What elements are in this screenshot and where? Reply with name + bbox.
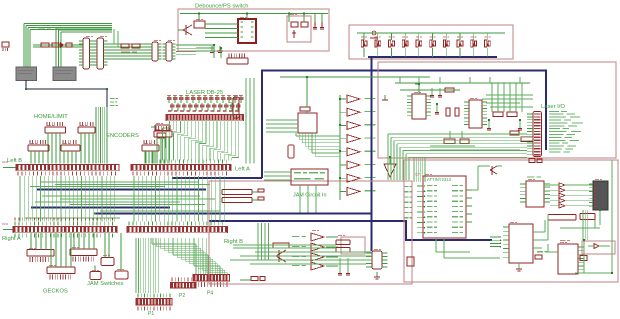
svg-text:Left B: Left B	[7, 158, 22, 164]
svg-text:JAM Switches: JAM Switches	[87, 281, 124, 287]
svg-text:Laser I/O: Laser I/O	[541, 104, 565, 110]
svg-text:Debounce/PS switch: Debounce/PS switch	[195, 4, 249, 10]
svg-text:P2: P2	[179, 293, 185, 299]
svg-text:Right A: Right A	[2, 236, 21, 242]
svg-text:Left A: Left A	[235, 167, 250, 173]
svg-text:HOME/LIMIT: HOME/LIMIT	[34, 114, 68, 120]
svg-text:ENCODERS: ENCODERS	[106, 133, 139, 139]
svg-text:P4: P4	[207, 291, 213, 297]
svg-text:Right B: Right B	[224, 239, 243, 245]
svg-text:IC7: IC7	[415, 173, 420, 177]
svg-text:JAM Circuit In: JAM Circuit In	[293, 193, 327, 199]
svg-text:P1: P1	[148, 311, 154, 317]
svg-text:GECKOS: GECKOS	[43, 289, 68, 295]
svg-text:ATTINY2313: ATTINY2313	[427, 177, 452, 182]
